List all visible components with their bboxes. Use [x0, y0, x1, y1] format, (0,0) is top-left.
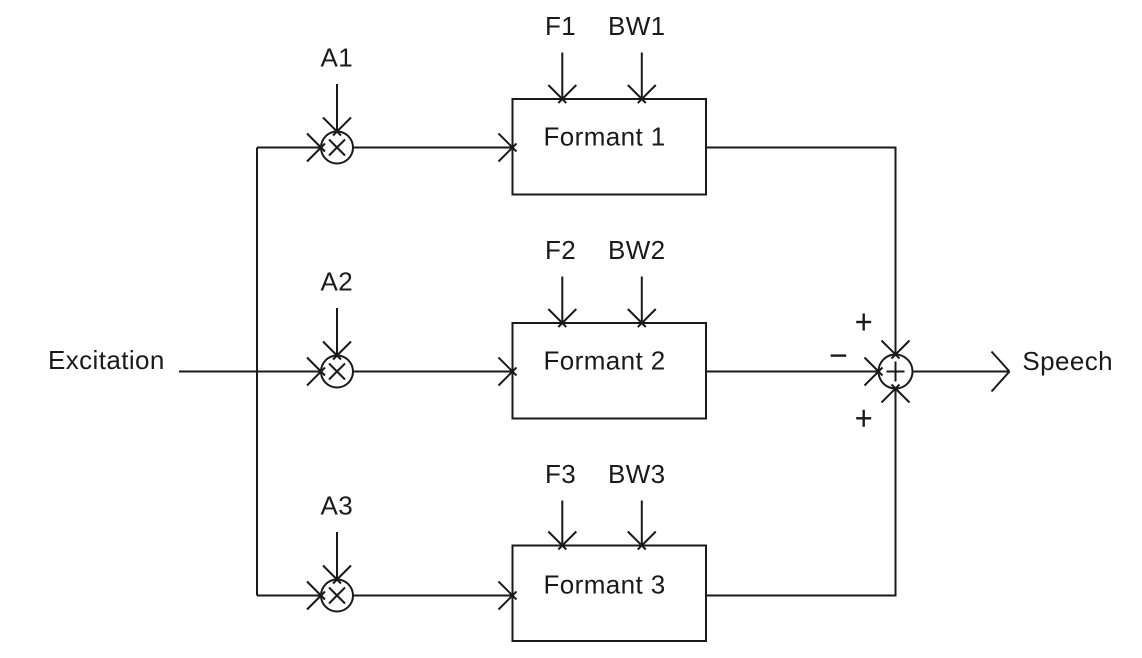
svg-text:F2: F2: [545, 235, 576, 265]
wire Formant 1 to adder: [706, 148, 910, 359]
wire excitation input: [179, 371, 257, 373]
label Speech: [1022, 346, 1113, 376]
wire Formant 3 to adder: [706, 385, 910, 596]
wire F3 into Formant 3: [548, 501, 576, 550]
sign plus bottom: [856, 410, 871, 427]
wire M3 to Formant 3: [353, 582, 517, 610]
svg-text:Excitation: Excitation: [48, 345, 165, 375]
label BW1: [608, 11, 666, 41]
svg-text:A2: A2: [321, 267, 354, 297]
multiplier M3: [321, 580, 353, 612]
svg-text:BW2: BW2: [608, 235, 666, 265]
wire F1 into Formant 1: [548, 53, 576, 104]
label A3: [321, 491, 354, 521]
label A2: [321, 267, 354, 297]
sign minus: [831, 354, 847, 356]
multiplier M2: [321, 356, 353, 388]
block Formant 2: [513, 323, 707, 419]
svg-text:Formant 3: Formant 3: [544, 570, 666, 600]
wire BW3 into Formant 3: [628, 501, 656, 550]
label BW3: [608, 459, 666, 489]
wire BW1 into Formant 1: [628, 53, 656, 104]
wire branch to multiplier M3: [257, 582, 325, 610]
wire branch to multiplier M2: [257, 358, 325, 386]
svg-text:Speech: Speech: [1022, 346, 1113, 376]
label F3: [545, 459, 576, 489]
label F2: [545, 235, 576, 265]
wire M1 to Formant 1: [353, 134, 517, 162]
svg-text:F1: F1: [545, 11, 576, 41]
multiplier M1: [321, 132, 353, 164]
wire branch bus: [256, 148, 258, 596]
adder U1: [879, 355, 913, 389]
wire M2 to Formant 2: [353, 358, 517, 386]
wire BW2 into Formant 2: [628, 277, 656, 328]
block Formant 1: [513, 99, 707, 195]
wire Formant 2 to adder: [706, 358, 883, 386]
label Excitation: [48, 345, 165, 375]
wire A1 to M1: [323, 84, 351, 136]
svg-text:A1: A1: [321, 43, 354, 73]
svg-text:BW1: BW1: [608, 11, 666, 41]
svg-text:Formant 1: Formant 1: [544, 122, 666, 152]
svg-text:A3: A3: [321, 491, 354, 521]
label F1: [545, 11, 576, 41]
label BW2: [608, 235, 666, 265]
sign plus top: [856, 314, 871, 331]
svg-text:F3: F3: [545, 459, 576, 489]
svg-text:BW3: BW3: [608, 459, 666, 489]
wire F2 into Formant 2: [548, 277, 576, 328]
wire adder to speech output: [913, 352, 1010, 392]
wire branch to multiplier M1: [257, 134, 325, 162]
wire A3 to M3: [323, 532, 351, 584]
svg-text:Formant 2: Formant 2: [544, 346, 666, 376]
wire A2 to M2: [323, 308, 351, 360]
block Formant 3: [513, 546, 707, 642]
label A1: [321, 43, 354, 73]
